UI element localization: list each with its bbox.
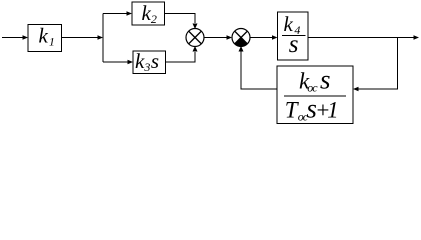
wire branch to K2 (103, 11, 132, 15)
wire S2 to K4 (250, 35, 278, 39)
block K1 (28, 24, 62, 52)
wire K3 to summer S1 (166, 46, 198, 62)
wire K1 to branch node (62, 35, 104, 39)
svg-text:s: s (289, 31, 299, 58)
block K2 (132, 1, 165, 26)
wire branch to K3 (103, 60, 133, 64)
svg-text:Tocs+1: Tocs+1 (285, 94, 339, 124)
node branch vertical (102, 14, 104, 63)
summer S2 with filled lower sector (232, 29, 250, 47)
block feedback Koc (277, 64, 353, 123)
node takeoff and feedback wire down-left (353, 38, 398, 92)
wire output (308, 35, 419, 39)
block K4 integrator k4/s (278, 12, 309, 60)
wire K2 to summer S1 (165, 14, 198, 30)
wire S1 to S2 (204, 35, 232, 39)
wire input arrow (2, 35, 28, 39)
wire feedback to S2 (239, 46, 278, 89)
block K3 (133, 49, 166, 74)
summer S1 (186, 29, 204, 47)
